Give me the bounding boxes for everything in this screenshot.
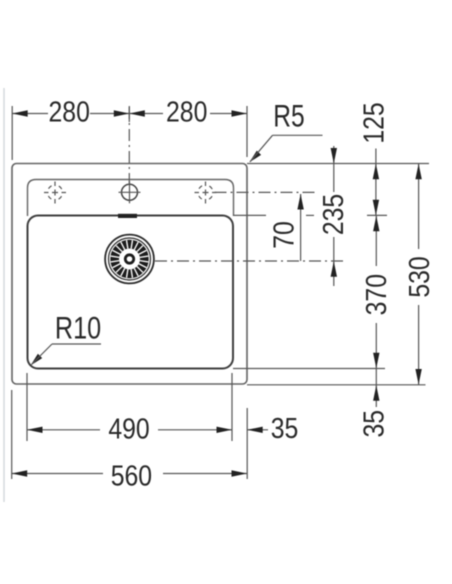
svg-text:490: 490: [108, 413, 149, 445]
svg-text:235: 235: [317, 194, 349, 235]
svg-text:R10: R10: [55, 311, 101, 346]
svg-text:370: 370: [360, 274, 392, 315]
svg-text:280: 280: [166, 96, 207, 128]
svg-text:R5: R5: [273, 98, 304, 134]
svg-text:70: 70: [268, 221, 300, 249]
svg-text:35: 35: [271, 412, 299, 444]
svg-text:35: 35: [358, 410, 390, 438]
svg-text:530: 530: [403, 256, 435, 297]
svg-text:280: 280: [49, 96, 90, 128]
svg-text:560: 560: [111, 460, 152, 492]
svg-text:125: 125: [358, 102, 390, 143]
